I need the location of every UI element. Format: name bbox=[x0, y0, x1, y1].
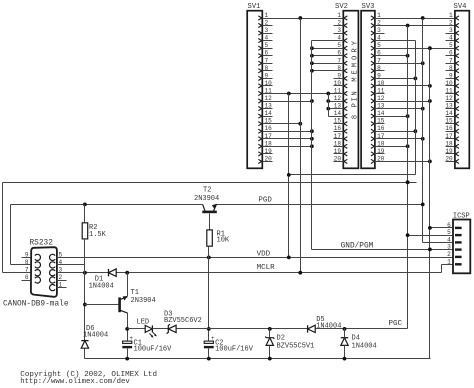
svg-text:1N4004: 1N4004 bbox=[83, 331, 108, 339]
svg-text:1: 1 bbox=[337, 12, 341, 19]
svg-text:D2: D2 bbox=[277, 335, 285, 343]
svg-text:LED: LED bbox=[137, 318, 150, 326]
svg-text:SV2: SV2 bbox=[335, 3, 348, 11]
svg-text:PGC: PGC bbox=[389, 320, 403, 328]
svg-text:VDD: VDD bbox=[257, 251, 271, 259]
svg-text:SV4: SV4 bbox=[454, 3, 467, 11]
svg-text:MEMORY: MEMORY bbox=[351, 38, 359, 82]
svg-text:CANON-DB9-male: CANON-DB9-male bbox=[3, 301, 69, 309]
svg-text:GND/PGM: GND/PGM bbox=[341, 242, 374, 250]
svg-text:T2: T2 bbox=[203, 186, 211, 194]
svg-text:SV3: SV3 bbox=[362, 3, 375, 11]
svg-text:12: 12 bbox=[334, 95, 342, 102]
svg-text:PGD: PGD bbox=[258, 197, 272, 205]
svg-text:1: 1 bbox=[449, 12, 453, 19]
svg-text:2: 2 bbox=[447, 251, 451, 258]
svg-text:1: 1 bbox=[377, 12, 381, 19]
svg-text:2: 2 bbox=[59, 274, 63, 281]
svg-text:10K: 10K bbox=[217, 237, 230, 245]
svg-text:SV1: SV1 bbox=[248, 3, 261, 11]
svg-text:6: 6 bbox=[25, 274, 29, 281]
svg-text:MCLR: MCLR bbox=[257, 264, 276, 272]
svg-text:12: 12 bbox=[265, 95, 273, 102]
svg-text:http://www.olimex.com/dev: http://www.olimex.com/dev bbox=[20, 378, 130, 386]
svg-text:2N3904: 2N3904 bbox=[131, 297, 156, 305]
svg-text:100uF/16V: 100uF/16V bbox=[134, 346, 173, 354]
svg-text:3: 3 bbox=[447, 244, 451, 251]
svg-text:100uF/16V: 100uF/16V bbox=[215, 346, 254, 354]
svg-text:BZV55C6V2: BZV55C6V2 bbox=[164, 317, 202, 325]
svg-text:1: 1 bbox=[447, 258, 451, 265]
svg-text:1.5K: 1.5K bbox=[89, 231, 107, 239]
svg-text:8 PIN: 8 PIN bbox=[351, 90, 359, 119]
svg-text:BZV55C5V1: BZV55C5V1 bbox=[277, 343, 315, 351]
svg-text:T1: T1 bbox=[131, 289, 139, 297]
svg-text:1N4004: 1N4004 bbox=[352, 343, 377, 351]
svg-text:1: 1 bbox=[265, 12, 269, 19]
svg-text:D4: D4 bbox=[352, 335, 360, 343]
svg-text:1N4004: 1N4004 bbox=[89, 283, 114, 291]
svg-text:2N3904: 2N3904 bbox=[194, 195, 219, 203]
svg-text:12: 12 bbox=[445, 95, 453, 102]
svg-text:12: 12 bbox=[377, 95, 385, 102]
svg-text:1N4004: 1N4004 bbox=[316, 322, 341, 330]
svg-text:RS232: RS232 bbox=[30, 239, 54, 247]
